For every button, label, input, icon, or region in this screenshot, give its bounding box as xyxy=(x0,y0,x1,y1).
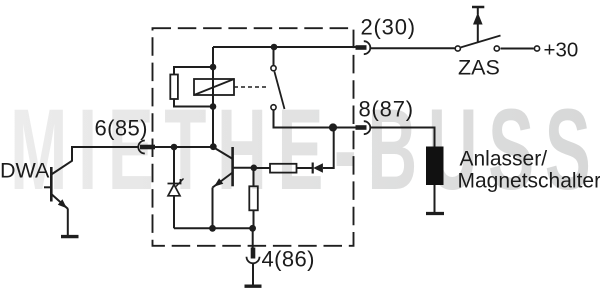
wire: vertical relay feed x=213 xyxy=(212,47,214,147)
resistor R3 (horizontal, collector to diode) xyxy=(270,164,297,173)
node: junction bottom of R1 branch xyxy=(210,103,217,110)
wire: collector node to R3 xyxy=(254,167,270,169)
wire: solenoid to ground xyxy=(434,185,436,212)
node: junction on 8(87) bus xyxy=(329,123,337,131)
svg-text:6(85): 6(85) xyxy=(95,116,148,141)
wire: top bus from relay to terminal 2(30) xyxy=(213,46,356,48)
terminal 8(87) connector xyxy=(356,121,371,134)
wire: drop from 8(87) bus to diode xyxy=(323,128,334,169)
wire: bottom rail to 4(86) xyxy=(174,227,253,229)
svg-text:ZAS: ZAS xyxy=(458,56,500,80)
dashed mechanical linkage to contact xyxy=(234,86,269,88)
dashed enclosure (relay module boundary) xyxy=(153,28,354,246)
node: junction top wire to contact xyxy=(271,44,278,51)
key actuator symbol above ZAS xyxy=(472,7,484,42)
terminal 2(30) connector xyxy=(356,41,371,54)
svg-text:Magnetschalter: Magnetschalter xyxy=(458,170,600,193)
relay coil K1 xyxy=(194,79,234,95)
wire: stub to contact top xyxy=(273,47,275,65)
resistor R1 (parallel to relay coil) xyxy=(170,75,178,100)
node: emitter junction on rail xyxy=(209,225,216,232)
wire: 6(85) input to base node xyxy=(152,146,213,148)
terminal 4(86) connector xyxy=(247,248,260,285)
resistor R2 (vertical, to 4(86) rail) xyxy=(249,186,257,210)
node: 4(86) junction on rail xyxy=(249,225,256,232)
node: collector junction xyxy=(251,165,258,172)
node: base junction (relay coil low side) xyxy=(210,143,217,150)
starter solenoid coil (Anlasser/Magnetschalter) xyxy=(426,147,444,186)
diode D1 xyxy=(297,163,323,174)
zener diode ZD1 xyxy=(168,147,184,228)
node: junction top of R1 branch xyxy=(210,64,217,71)
wire: R1 branch bottom xyxy=(174,99,213,107)
relay contact (normally open switch) xyxy=(271,66,285,110)
wire: rail down to terminal 4(86) xyxy=(252,228,254,247)
wire: ZAS to +30 xyxy=(501,48,534,50)
wire: R2 bottom to rail xyxy=(253,210,255,228)
terminal 6(85) connector xyxy=(138,141,155,154)
wire: collector node down to R2 xyxy=(253,168,255,187)
switch ZAS (ignition) xyxy=(455,36,500,52)
wire: 8(87) to starter solenoid xyxy=(371,128,435,147)
transistor Q1 (DWA output) xyxy=(44,147,139,235)
svg-text:2(30): 2(30) xyxy=(361,15,416,40)
wire: 2(30) to ZAS switch xyxy=(371,47,455,49)
svg-text:Anlasser/: Anlasser/ xyxy=(460,148,548,171)
svg-text:8(87): 8(87) xyxy=(359,97,414,122)
ground at solenoid xyxy=(426,212,444,215)
node: +30 terminal circle xyxy=(534,46,539,51)
wire: contact bottom to 8(87) bus xyxy=(274,110,357,127)
wire: R1 branch top xyxy=(174,67,213,75)
svg-text:+30: +30 xyxy=(544,39,579,62)
ground at Q1 emitter xyxy=(61,235,79,238)
ground at 4(86) xyxy=(245,285,262,288)
svg-text:DWA: DWA xyxy=(0,159,50,183)
transistor Q2 (driver) xyxy=(213,147,254,228)
node: zener tap junction xyxy=(171,144,178,151)
svg-text:4(86): 4(86) xyxy=(262,247,315,272)
